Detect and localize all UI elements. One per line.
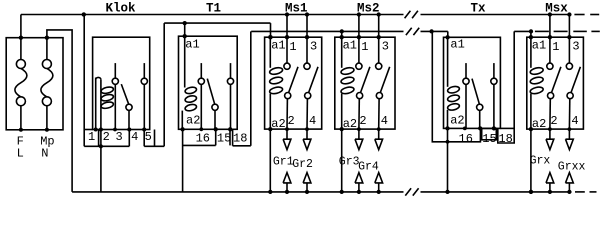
- svg-text:a2: a2: [186, 114, 200, 128]
- svg-text:Grx: Grx: [530, 155, 551, 168]
- svg-text:a2: a2: [450, 114, 464, 128]
- svg-text:3: 3: [572, 40, 579, 54]
- svg-text:2: 2: [359, 114, 366, 128]
- svg-text:1: 1: [361, 40, 368, 54]
- svg-text:Msx: Msx: [545, 2, 568, 16]
- svg-text:L: L: [17, 146, 24, 160]
- svg-text:Tx: Tx: [471, 2, 487, 16]
- svg-text:a1: a1: [271, 38, 285, 52]
- svg-text:2: 2: [550, 114, 557, 128]
- svg-text:3: 3: [116, 130, 123, 144]
- svg-text:a1: a1: [185, 38, 199, 52]
- svg-text:16: 16: [196, 131, 210, 145]
- svg-text:a1: a1: [450, 38, 464, 52]
- svg-text:a2: a2: [532, 117, 546, 131]
- svg-text:a2: a2: [271, 117, 285, 131]
- svg-text:3: 3: [310, 40, 317, 54]
- svg-text:16: 16: [459, 132, 473, 146]
- svg-text:5: 5: [145, 130, 152, 144]
- svg-text:1: 1: [289, 40, 296, 54]
- svg-text:Klok: Klok: [106, 2, 137, 16]
- svg-text:3: 3: [382, 40, 389, 54]
- svg-text:Gr2: Gr2: [292, 158, 313, 171]
- svg-text:Grxx: Grxx: [558, 160, 586, 173]
- svg-text:15: 15: [217, 131, 231, 145]
- svg-text:4: 4: [571, 114, 578, 128]
- svg-text:4: 4: [381, 114, 388, 128]
- svg-text:Gr1: Gr1: [273, 156, 294, 169]
- svg-text:Ms1: Ms1: [285, 2, 308, 16]
- svg-text:a1: a1: [343, 38, 357, 52]
- svg-text:4: 4: [131, 130, 138, 144]
- svg-text:a2: a2: [343, 117, 357, 131]
- svg-text:15: 15: [482, 132, 496, 146]
- svg-text:18: 18: [233, 131, 247, 145]
- svg-text:T1: T1: [206, 2, 221, 16]
- svg-text:1: 1: [88, 130, 95, 144]
- svg-text:Gr3: Gr3: [339, 156, 360, 169]
- svg-text:Ms2: Ms2: [357, 2, 380, 16]
- svg-text:1: 1: [552, 40, 559, 54]
- svg-text:a1: a1: [532, 38, 546, 52]
- svg-text:2: 2: [103, 130, 110, 144]
- svg-text:2: 2: [288, 114, 295, 128]
- svg-text:4: 4: [309, 114, 316, 128]
- svg-text:N: N: [41, 146, 48, 160]
- svg-text:Gr4: Gr4: [358, 160, 379, 173]
- svg-text:18: 18: [498, 132, 512, 146]
